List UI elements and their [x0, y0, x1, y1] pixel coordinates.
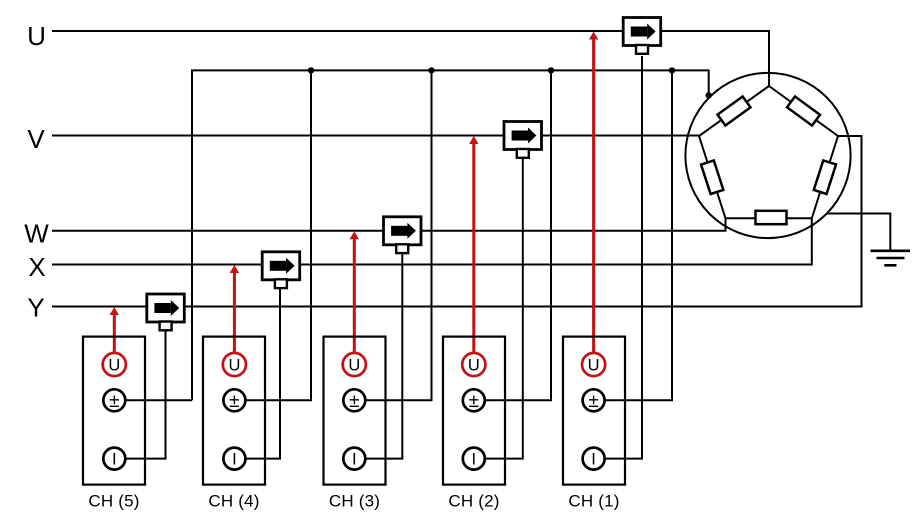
- winding resistor top-right: [787, 96, 820, 125]
- svg-text:Y: Y: [27, 293, 44, 323]
- terminal I CH3: [343, 448, 365, 470]
- terminal shield CH2: [463, 389, 485, 412]
- svg-text:±: ±: [469, 391, 479, 412]
- wire phase X line: [52, 218, 812, 264]
- svg-text:U: U: [348, 356, 360, 374]
- wire CH5 shield lead: [126, 399, 192, 401]
- svg-text:CH (1): CH (1): [568, 492, 619, 511]
- svg-text:±: ±: [349, 391, 359, 412]
- winding resistor left: [701, 160, 723, 194]
- wire CH2 I lead: [486, 157, 523, 459]
- ground symbol: [871, 251, 911, 265]
- svg-text:V: V: [27, 124, 45, 154]
- svg-text:±: ±: [588, 391, 598, 412]
- terminal U CH1: [582, 353, 605, 376]
- svg-text:U: U: [27, 21, 46, 51]
- wire CH2 shield lead: [486, 70, 551, 400]
- voltage lead CH1 (red): [589, 32, 598, 353]
- pentagon winding wires: [699, 86, 838, 218]
- svg-text:CH (2): CH (2): [448, 492, 499, 511]
- svg-text:±: ±: [109, 391, 119, 412]
- wire phase W line: [52, 218, 726, 230]
- svg-text:CH (3): CH (3): [329, 492, 380, 511]
- current sensor CT3 on W: [384, 217, 422, 253]
- current sensor CT2 on V: [504, 122, 542, 158]
- junction dot bus to motor frame: [706, 92, 712, 98]
- winding resistor bottom: [756, 211, 787, 224]
- channel box CH2: [443, 337, 505, 485]
- current sensor CT4 on X: [262, 252, 300, 288]
- junction dot bus-CH1: [669, 67, 675, 73]
- wire CH3 shield lead: [366, 70, 432, 400]
- svg-text:I: I: [591, 450, 596, 468]
- svg-text:U: U: [108, 356, 120, 374]
- terminal shield CH1: [583, 389, 605, 412]
- terminal U CH3: [343, 353, 366, 376]
- terminal U CH4: [223, 353, 246, 376]
- wire CH3 I lead: [366, 252, 402, 459]
- channel box CH3: [324, 337, 386, 485]
- voltage lead CH5 (red): [110, 307, 119, 353]
- wire phase Y line: [52, 136, 862, 307]
- wire CH5 I lead: [126, 331, 166, 459]
- svg-text:±: ±: [229, 391, 239, 412]
- wire phase V line: [52, 135, 699, 137]
- wire CH1 I lead: [605, 56, 642, 459]
- wire shield bus: [192, 70, 709, 400]
- terminal U CH5: [103, 353, 126, 376]
- terminal I CH4: [223, 448, 245, 470]
- svg-text:X: X: [28, 252, 45, 282]
- terminal U CH2: [462, 353, 485, 376]
- svg-text:I: I: [352, 450, 357, 468]
- junction dot bus-CH4: [308, 67, 314, 73]
- wire CH4 shield lead: [246, 70, 311, 400]
- winding resistor top-left: [718, 96, 751, 125]
- svg-text:I: I: [472, 450, 477, 468]
- channel box CH5: [83, 337, 145, 485]
- current sensor CT5 on Y: [147, 294, 185, 330]
- svg-text:U: U: [588, 356, 600, 374]
- terminal I CH1: [583, 448, 605, 470]
- svg-text:CH (5): CH (5): [88, 492, 139, 511]
- wire CH4 I lead: [246, 287, 280, 459]
- svg-text:W: W: [24, 218, 49, 248]
- voltage lead CH2 (red): [469, 136, 478, 353]
- current sensor CT1 on U: [623, 18, 661, 54]
- wire motor chassis to earth: [827, 214, 891, 251]
- terminal shield CH4: [223, 389, 245, 412]
- motor outline circle: [685, 73, 850, 238]
- channel box CH4: [203, 337, 265, 485]
- channel box CH1: [563, 337, 625, 485]
- terminal I CH2: [463, 448, 485, 470]
- svg-text:I: I: [112, 450, 117, 468]
- svg-text:I: I: [232, 450, 237, 468]
- winding resistor right: [814, 160, 836, 194]
- wire phase U line: [52, 31, 769, 86]
- svg-text:CH (4): CH (4): [208, 492, 259, 511]
- svg-text:U: U: [228, 356, 240, 374]
- junction dot bus-CH3: [428, 67, 434, 73]
- svg-text:U: U: [468, 356, 480, 374]
- voltage lead CH3 (red): [350, 231, 359, 353]
- terminal I CH5: [103, 448, 125, 470]
- voltage lead CH4 (red): [230, 265, 239, 353]
- wire CH1 shield lead: [605, 70, 672, 400]
- junction dot bus-CH2: [548, 67, 554, 73]
- terminal shield CH5: [103, 389, 125, 412]
- terminal shield CH3: [343, 389, 365, 412]
